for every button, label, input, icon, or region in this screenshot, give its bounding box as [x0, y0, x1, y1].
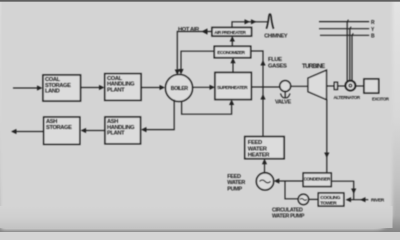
box superheater [215, 73, 251, 100]
chimney [266, 14, 273, 29]
svg-text:PUMP: PUMP [227, 186, 242, 192]
svg-text:COOLING: COOLING [320, 195, 340, 201]
wire circulating pump to cooling tower [309, 198, 319, 200]
wire feed pump to feed water heater [262, 159, 267, 173]
svg-text:CHIMNEY: CHIMNEY [264, 33, 288, 39]
wire coal handling to boiler [141, 85, 165, 90]
wire condenser to river junction [331, 181, 356, 200]
svg-text:RIVER: RIVER [371, 198, 385, 204]
wire boiler ash to ash handling plant [141, 100, 174, 133]
svg-text:PLANT: PLANT [107, 131, 125, 137]
wire superheater flue to economiser [230, 58, 235, 73]
wire economiser water to boiler [178, 51, 214, 74]
svg-text:WATER PUMP: WATER PUMP [272, 214, 305, 220]
svg-text:CIRCULATED: CIRCULATED [272, 207, 303, 213]
svg-text:SUPERHEATER: SUPERHEATER [217, 85, 248, 90]
wire boiler to superheater [193, 85, 216, 90]
svg-text:WATER: WATER [248, 146, 268, 152]
svg-text:PLANT: PLANT [107, 87, 125, 93]
bus bar Y [319, 28, 369, 30]
shaft alternator-excitor [355, 85, 364, 87]
bus bar B [320, 34, 369, 36]
wire alternator phase B drop [352, 33, 353, 81]
wire alternator phase R drop [347, 20, 348, 82]
box coal storage land [43, 75, 81, 101]
wire valve to turbine [291, 85, 308, 87]
alternator [346, 81, 356, 91]
wire ash out [11, 129, 44, 134]
wire superheater to valve [251, 86, 279, 88]
wire coal storage to coal handling [81, 85, 105, 90]
box ash handling plant [105, 117, 141, 144]
svg-text:ECONOMIZER: ECONOMIZER [217, 50, 245, 55]
svg-text:STORAGE: STORAGE [46, 125, 72, 131]
circulating water pump [298, 194, 308, 204]
box economiser [214, 46, 250, 57]
wire turbine exhaust to condenser [324, 100, 329, 173]
feed water pump [256, 173, 273, 190]
svg-text:HOT AIR: HOT AIR [178, 27, 199, 33]
box ash storage [44, 117, 80, 144]
wire condenser to feed pump [274, 178, 303, 183]
svg-text:LAND: LAND [45, 89, 60, 95]
wire economiser flue to air preheater [230, 36, 235, 46]
svg-text:VALVE: VALVE [275, 100, 291, 106]
wire river to cooling tower [346, 197, 369, 202]
wire air preheater to chimney [232, 19, 268, 27]
svg-text:CONDENSER: CONDENSER [303, 177, 331, 183]
svg-text:TOWER: TOWER [320, 201, 337, 207]
wire feed water heater to economiser (flue gases) [251, 51, 266, 137]
wire coal inlet [13, 85, 43, 90]
box condenser [303, 173, 331, 187]
wire hot air from air preheater to boiler [175, 28, 212, 75]
wire alternator phase Y drop [350, 27, 351, 81]
valve [280, 81, 291, 98]
svg-text:WATER: WATER [227, 180, 245, 186]
svg-text:BOILER: BOILER [171, 86, 189, 92]
svg-text:AIR PREHEATER: AIR PREHEATER [214, 30, 246, 35]
svg-text:FLUE: FLUE [268, 57, 282, 63]
wire condensate branch to circulating pump [285, 181, 298, 199]
svg-text:HEATER: HEATER [248, 153, 270, 159]
svg-text:FEED: FEED [248, 140, 262, 146]
box feed water heater [245, 137, 284, 159]
svg-text:FEED: FEED [227, 174, 241, 180]
coupling [334, 82, 337, 89]
wire boiler flue to superheater bottom [182, 100, 235, 115]
boiler circle [166, 75, 193, 102]
shaft coupling-alternator [338, 85, 346, 87]
shaft turbine-coupling [327, 85, 335, 87]
svg-text:GASES: GASES [268, 63, 287, 69]
svg-text:EXCITOR: EXCITOR [372, 96, 390, 101]
box cooling tower [318, 193, 344, 206]
svg-text:ALTERNATOR: ALTERNATOR [334, 95, 361, 100]
turbine [308, 70, 327, 99]
box excitor [364, 79, 379, 93]
wire ash handling to ash storage [81, 128, 105, 133]
box air preheater [212, 28, 252, 37]
svg-text:TURBINE: TURBINE [302, 64, 325, 70]
bus bar R [319, 21, 369, 23]
box coal handling plant [105, 74, 141, 101]
